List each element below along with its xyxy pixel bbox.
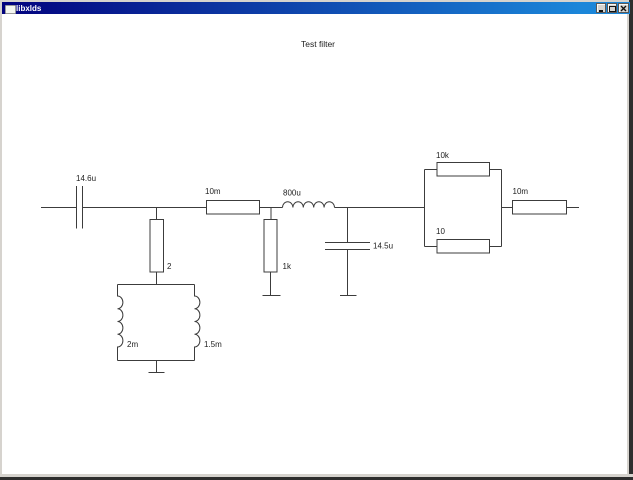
wire parallel block to output resistor	[502, 207, 513, 209]
title text libxlds	[16, 3, 116, 14]
svg-text:2m: 2m	[127, 340, 138, 349]
inductor 1.5m (right leg)	[195, 285, 200, 361]
wire resistor 10 to right vertical	[490, 246, 502, 248]
close button	[618, 3, 629, 13]
app icon	[5, 5, 16, 14]
wire input left	[41, 207, 77, 209]
wire inductor to parallel block	[335, 207, 425, 209]
title bar	[2, 2, 630, 14]
resistor 10 (parallel bottom)	[437, 240, 490, 254]
wire parallel block right vertical	[501, 170, 503, 247]
wire output right	[567, 207, 580, 209]
wire LC tank top	[118, 284, 195, 286]
wire capacitor 14.5u to ground	[347, 250, 349, 296]
svg-text:10k: 10k	[436, 151, 450, 160]
inductor 800u	[283, 202, 335, 208]
window frame: bottom dark edge	[0, 474, 633, 477]
wire parallel block left vertical	[424, 170, 426, 247]
svg-text:1.5m: 1.5m	[204, 340, 222, 349]
capacitor 14.5u (shunt)	[325, 243, 370, 250]
wire branch down to capacitor 14.5u	[347, 208, 349, 243]
resistor 10m (series)	[207, 201, 260, 215]
svg-text:14.6u: 14.6u	[76, 174, 96, 183]
minimize button	[596, 3, 606, 13]
svg-text:10m: 10m	[205, 187, 221, 196]
wire resistor 10k to right vertical	[490, 169, 502, 171]
resistor 10k (parallel top)	[437, 163, 490, 177]
ground (1k)	[263, 295, 281, 297]
capacitor 14.6u	[77, 186, 83, 229]
wire branch down to resistor 1k	[270, 208, 272, 220]
inductor 2m (left leg)	[118, 285, 123, 361]
resistor 1k (shunt)	[264, 220, 277, 273]
svg-text:2: 2	[167, 262, 172, 271]
wire branch down to resistor 2	[156, 208, 158, 220]
window frame: right dark edge	[627, 0, 629, 480]
svg-text:10: 10	[436, 227, 445, 236]
wire LC tank bottom	[118, 360, 195, 362]
maximize button	[607, 3, 617, 13]
wire R 10m to inductor 800u	[260, 207, 283, 209]
svg-text:10m: 10m	[513, 187, 529, 196]
svg-text:1k: 1k	[283, 262, 292, 271]
resistor 2 (shunt)	[150, 220, 164, 273]
svg-text:Test filter: Test filter	[301, 39, 335, 49]
wire resistor 2 to LC tank	[156, 272, 158, 285]
ground (14.5u)	[340, 295, 357, 297]
wire resistor 1k to ground	[270, 272, 272, 296]
window frame: left light edge	[0, 0, 2, 480]
window frame: top light edge	[0, 0, 633, 2]
svg-text:800u: 800u	[283, 189, 301, 198]
resistor 10m (output)	[513, 201, 567, 215]
wire LC tank to ground	[156, 361, 158, 373]
wire to resistor 10k	[425, 169, 438, 171]
wire cap to R 10m	[83, 207, 207, 209]
wire to resistor 10	[425, 246, 438, 248]
svg-text:14.5u: 14.5u	[373, 242, 393, 251]
ground (LC tank)	[149, 372, 165, 374]
